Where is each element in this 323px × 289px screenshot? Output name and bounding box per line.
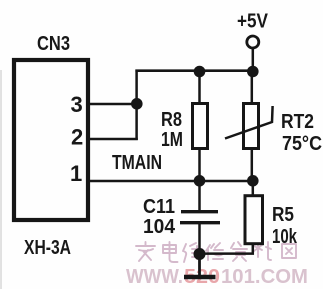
ground bbox=[184, 275, 216, 280]
svg-text:TMAIN: TMAIN bbox=[112, 152, 162, 174]
svg-text:+5V: +5V bbox=[237, 11, 269, 33]
svg-text:2: 2 bbox=[71, 125, 83, 150]
svg-text:10k: 10k bbox=[272, 226, 298, 248]
wire vertical pin2/pin3 to top rail bbox=[135, 70, 138, 141]
node junction pin3 bbox=[131, 98, 143, 110]
svg-text:75°C: 75°C bbox=[282, 133, 322, 155]
wire C11 bottom to ground node bbox=[198, 224, 201, 256]
svg-text:R8: R8 bbox=[161, 109, 182, 131]
resistor R8 bbox=[193, 104, 208, 149]
svg-text:CN3: CN3 bbox=[37, 33, 70, 55]
node junction rail/R8 bbox=[194, 66, 206, 78]
capacitor C11 bottom plate bbox=[180, 221, 220, 224]
wire RT2 bottom to node bbox=[251, 148, 254, 182]
svg-text:RT2: RT2 bbox=[281, 111, 314, 133]
svg-text:3: 3 bbox=[71, 92, 83, 117]
svg-text:1M: 1M bbox=[161, 129, 183, 151]
connector CN3 box bbox=[14, 60, 88, 220]
wire R8 bottom to node bbox=[198, 148, 201, 182]
svg-text:XH-3A: XH-3A bbox=[24, 237, 71, 259]
wire node to R5 top bbox=[252, 181, 255, 195]
svg-text:1: 1 bbox=[70, 161, 82, 186]
wire rail to RT2 top bbox=[251, 71, 254, 103]
scan edge artifact bbox=[0, 70, 2, 289]
node junction C11/R5/ground bbox=[194, 248, 206, 260]
+5V terminal circle bbox=[247, 36, 259, 48]
capacitor C11 top plate bbox=[181, 210, 218, 213]
wire pin3 to junction bbox=[88, 103, 137, 106]
svg-text:104: 104 bbox=[143, 216, 176, 238]
wire top rail bbox=[135, 69, 254, 72]
node junction pin1/R5 bbox=[247, 175, 259, 187]
watermark bbox=[126, 242, 308, 288]
wire +5V terminal to rail bbox=[252, 48, 255, 71]
wire node to C11 top bbox=[198, 181, 201, 211]
wire pin1 rail TMAIN bbox=[88, 180, 254, 183]
resistor R5 bbox=[245, 196, 263, 244]
node junction rail/RT2 bbox=[247, 66, 259, 78]
wire R5 bottom to ground node bbox=[200, 243, 253, 254]
svg-text:C11: C11 bbox=[143, 196, 175, 218]
node junction pin1/C11 bbox=[194, 175, 206, 187]
wire ground lead bbox=[198, 254, 201, 276]
RT2 diagonal stroke bbox=[225, 106, 273, 139]
svg-text:R5: R5 bbox=[272, 204, 294, 226]
wire rail to R8 top bbox=[198, 71, 201, 103]
wire pin2 horizontal bbox=[88, 138, 138, 141]
thermistor RT2 bbox=[244, 104, 259, 149]
svg-text:101.COM: 101.COM bbox=[221, 266, 308, 288]
svg-text:WWW.: WWW. bbox=[126, 266, 183, 288]
